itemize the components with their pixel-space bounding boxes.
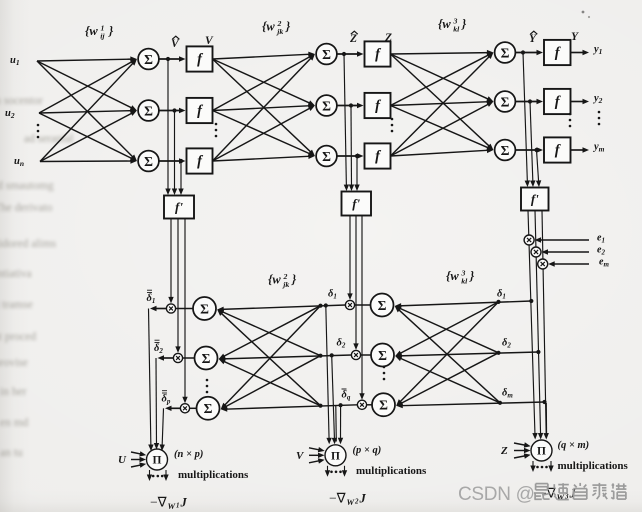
svg-text:Σ: Σ	[322, 47, 331, 62]
derivative box f'1	[164, 196, 194, 219]
svg-text:−∇: −∇	[150, 495, 168, 510]
svg-text:δ1: δ1	[328, 289, 337, 301]
activation box f31	[544, 40, 571, 65]
svg-text:f': f'	[175, 200, 183, 215]
activation box f22	[365, 93, 391, 118]
svg-text:δ2: δ2	[337, 338, 346, 350]
error input wire and label e1	[539, 239, 589, 241]
vertical ellipsis between u2 and un	[37, 124, 40, 127]
backward summing node (sigma) left net row 3	[197, 397, 220, 420]
wire sigma S21 to box f21 with junction	[337, 53, 360, 55]
product node P2 (Pi)	[325, 445, 346, 466]
svg-text:J: J	[359, 491, 367, 505]
summing node S31 (sigma, output layer row 1)	[495, 42, 516, 63]
output wire and label y2	[571, 101, 586, 103]
svg-text:}: }	[285, 20, 291, 34]
output wire and label ym	[571, 149, 586, 151]
wire sigma S31 to box f31 with junction	[515, 52, 539, 54]
svg-text:δq: δq	[342, 390, 351, 402]
derivative box f'3	[521, 188, 549, 211]
vertical ellipsis below f12	[215, 123, 218, 126]
wires: middle net drops to product node P2	[326, 306, 343, 445]
summing node S21 (sigma, layer 2 row 1)	[316, 44, 337, 65]
svg-text:{w: {w	[85, 24, 98, 38]
wires: bus from layer3 junctions into f'3	[523, 53, 541, 188]
svg-text:u1: u1	[10, 55, 20, 67]
svg-text:Σ: Σ	[202, 351, 211, 366]
error multiplier node (x) for e1	[524, 235, 534, 245]
activation box f32	[544, 89, 571, 114]
multiplier node (x) middle net row 2	[351, 350, 360, 359]
dashed output arrows below P1	[149, 470, 151, 477]
error multiplier node (x) for e2	[531, 247, 541, 257]
svg-text:jk: jk	[275, 27, 283, 36]
junction and row wire deltam (right net)	[542, 400, 546, 404]
svg-text:un: un	[14, 156, 24, 168]
svg-text:u2: u2	[5, 108, 15, 120]
svg-text:Σ: Σ	[501, 143, 510, 158]
backward summing node (sigma) middle net row 2	[371, 344, 394, 367]
dashed output arrows below P3	[532, 461, 534, 468]
svg-text:ym: ym	[592, 142, 605, 154]
svg-text:kl: kl	[453, 25, 460, 34]
wire sigma S22 to box f22 with junction	[337, 105, 360, 107]
svg-text:Σ: Σ	[501, 45, 510, 60]
svg-text:Σ: Σ	[204, 401, 213, 416]
wire sigma S13 to box f13 with junction	[159, 160, 182, 162]
backward summing node (sigma) left net row 1	[193, 297, 216, 320]
svg-text:Π: Π	[537, 446, 546, 458]
svg-text:}: }	[108, 24, 114, 38]
summing node S22 (sigma, layer 2 row 2)	[316, 95, 337, 116]
activation box f21	[365, 41, 391, 66]
multiplier node (x) left net row 3	[180, 404, 189, 413]
svg-text:kl: kl	[461, 277, 468, 286]
svg-text:δ1: δ1	[147, 293, 156, 305]
multiplier node (x) middle net row 1	[345, 300, 354, 309]
wires: slanted bus below f'3 down to product node P3	[528, 211, 549, 440]
vertical ellipsis middle backward sigma column	[383, 366, 386, 369]
svg-text:{w: {w	[446, 269, 459, 283]
svg-text:−∇: −∇	[329, 490, 347, 505]
multiplier node (x) left net row 1	[166, 304, 175, 313]
svg-text:Π: Π	[153, 455, 162, 467]
watermark pseudo-CJK glyphs	[534, 483, 627, 500]
wires: bus from layer2 junctions into f'2	[344, 54, 360, 191]
svg-text:y2: y2	[592, 93, 603, 105]
svg-text:f': f'	[531, 192, 539, 207]
svg-text:Σ: Σ	[501, 94, 510, 109]
svg-text:V: V	[171, 38, 180, 50]
svg-text:Σ: Σ	[200, 301, 209, 316]
svg-text:Σ: Σ	[379, 398, 388, 413]
summing node S33 (sigma, output layer row 3)	[495, 140, 516, 161]
svg-text:J: J	[180, 496, 188, 510]
svg-text:(p × q): (p × q)	[353, 445, 382, 456]
svg-text:Σ: Σ	[322, 149, 331, 164]
svg-text:δ2: δ2	[154, 343, 163, 355]
row wire delta2 (middle net) with junctions	[223, 355, 352, 359]
wire sigma S32 to box f32 with junction	[515, 101, 539, 103]
svg-text:Y: Y	[529, 33, 537, 45]
activation box f11	[187, 46, 213, 71]
svg-text:V: V	[205, 35, 214, 47]
svg-text:}: }	[291, 273, 297, 287]
svg-text:em: em	[599, 257, 609, 269]
wires: crossing net W3 (f layer2 to sigma layer3)	[391, 50, 494, 156]
product node P1 (Pi)	[147, 449, 168, 470]
svg-text:multiplications: multiplications	[558, 460, 629, 472]
summing node S11 (sigma, layer 1 row 1)	[138, 49, 159, 70]
svg-text:}: }	[461, 17, 467, 31]
faint bleed-through text lines from reverse page	[0, 95, 43, 107]
svg-text:δ1: δ1	[497, 289, 506, 301]
activation box f12	[187, 98, 213, 123]
vertical ellipsis below f32	[569, 113, 572, 116]
vertical ellipsis below y2	[598, 111, 601, 114]
vertical ellipsis left backward sigma column	[206, 379, 209, 382]
error input wire and label em	[552, 263, 589, 265]
summing node S32 (sigma, output layer row 2)	[495, 91, 516, 112]
svg-text:jk: jk	[281, 280, 289, 289]
svg-text:Σ: Σ	[322, 98, 331, 113]
svg-text:Σ: Σ	[378, 348, 387, 363]
svg-text:(n × p): (n × p)	[174, 449, 203, 460]
wires: crossing fan net W3 transpose	[395, 302, 500, 406]
svg-text:}: }	[469, 269, 475, 283]
svg-text:δp: δp	[162, 394, 171, 406]
wire sigma S23 to box f23 with junction	[337, 155, 360, 157]
error multiplier node (x) for em	[538, 259, 548, 269]
activation box f23	[365, 143, 391, 168]
wire sigma S12 to box f12 with junction	[159, 110, 182, 112]
wires: bus from layer1 junctions into f'1	[165, 59, 183, 195]
svg-text:{w: {w	[438, 17, 451, 31]
svg-text:Σ: Σ	[144, 52, 153, 67]
svg-text:1: 1	[176, 502, 180, 510]
svg-text:ij: ij	[100, 32, 105, 41]
svg-text:U: U	[118, 454, 127, 466]
delta-bar path row 1 (left net): wire left then down to P1	[154, 308, 166, 310]
row wire deltaq (middle net) with junctions	[225, 405, 358, 409]
derivative box f'2	[342, 192, 372, 216]
backward summing node (sigma) middle net row 1	[371, 294, 394, 317]
svg-text:Z: Z	[349, 33, 357, 45]
multiplier node (x) middle net row 3	[357, 400, 366, 409]
svg-text:Σ: Σ	[378, 298, 387, 313]
activation box f13	[187, 148, 213, 173]
delta-bar path row 2 (left net): wire left then down to P1	[162, 357, 174, 359]
output wire and label y1	[571, 52, 586, 54]
svg-text:multiplications: multiplications	[356, 465, 427, 477]
row wire delta1 (middle net) with junctions	[221, 305, 345, 309]
multiplier node (x) left net row 2	[173, 353, 182, 362]
svg-text:{w: {w	[268, 273, 281, 287]
backward summing node (sigma) middle net row 3	[372, 393, 395, 416]
svg-text:δ2: δ2	[502, 338, 511, 350]
wires: bus below f'2 to multiplier nodes	[347, 216, 364, 400]
summing node S12 (sigma, layer 1 row 2)	[138, 100, 159, 121]
delta-bar path row 3 (left net): wire left then down to P1	[169, 407, 180, 409]
svg-text:Π: Π	[331, 450, 340, 462]
svg-text:Y: Y	[571, 31, 579, 43]
svg-text:CSDN @: CSDN @	[458, 484, 535, 505]
dashed output arrows below P2	[327, 466, 329, 473]
svg-text:{w: {w	[262, 20, 275, 34]
svg-text:e1: e1	[597, 233, 605, 245]
junction and row wire delta1 (right net)	[529, 299, 533, 303]
svg-text:multiplications: multiplications	[178, 469, 249, 481]
error input wire and label e2	[546, 251, 590, 253]
svg-text:e2: e2	[597, 245, 605, 257]
specks near top right	[582, 11, 585, 14]
wires: crossing net W2 (f layer1 to sigma layer2)	[213, 52, 315, 161]
svg-text:Σ: Σ	[144, 154, 153, 169]
activation box f33	[544, 137, 571, 162]
svg-text:(q × m): (q × m)	[558, 440, 590, 451]
wire sigma S33 to box f33 with junction	[515, 149, 539, 151]
svg-text:Σ: Σ	[144, 103, 153, 118]
summing node S23 (sigma, layer 2 row 3)	[316, 146, 337, 167]
summing node S13 (sigma, layer 1 row 3)	[138, 151, 159, 172]
wires: crossing fan net W2 transpose	[217, 306, 320, 410]
wires: bus below f'1 to multiplier nodes	[168, 219, 187, 404]
wires: input fan net W1 (u to sigma layer 1)	[37, 56, 137, 163]
junction and row wire delta2 (right net)	[536, 350, 540, 354]
svg-text:y1: y1	[592, 44, 602, 56]
product node P3 (Pi)	[531, 440, 552, 461]
vertical ellipsis below f22	[391, 118, 394, 121]
svg-text:δm: δm	[502, 388, 513, 400]
backward summing node (sigma) left net row 2	[195, 347, 218, 370]
svg-text:2: 2	[354, 497, 359, 505]
svg-text:f': f'	[352, 196, 360, 211]
svg-text:V: V	[296, 450, 305, 462]
wire sigma S11 to box f11 with junction	[159, 58, 182, 60]
svg-text:Z: Z	[500, 445, 508, 457]
